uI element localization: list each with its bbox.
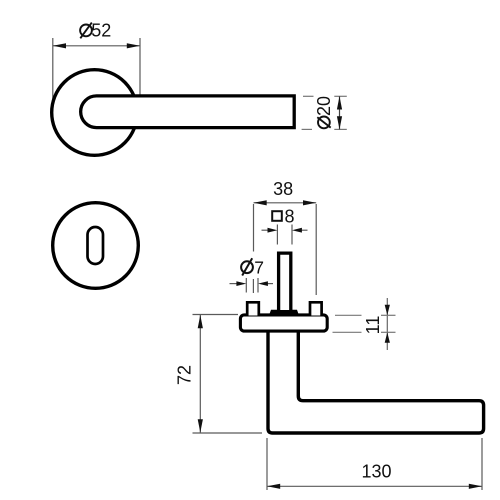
svg-text:8: 8 [285,206,295,226]
svg-text:7: 7 [254,258,264,278]
svg-text:38: 38 [273,179,293,199]
svg-text:11: 11 [363,316,383,335]
svg-text:52: 52 [91,21,111,41]
svg-text:20: 20 [314,96,334,116]
svg-text:130: 130 [361,462,391,482]
svg-text:72: 72 [175,365,195,385]
